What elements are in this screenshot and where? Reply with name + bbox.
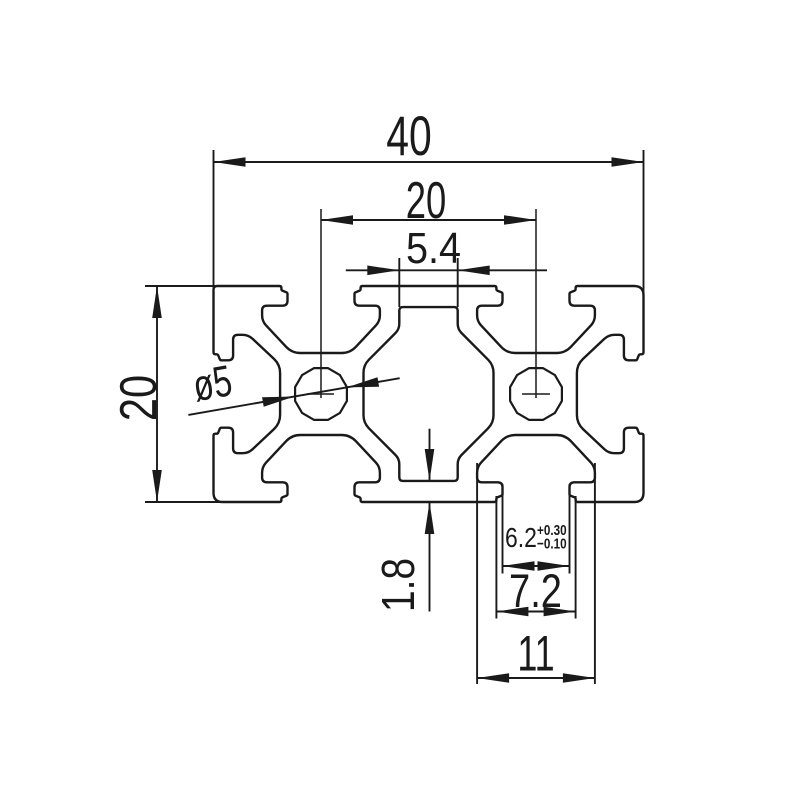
central cavity (364, 307, 494, 481)
dim 20 top centerline right (535, 209, 537, 398)
svg-text:7.2: 7.2 (509, 565, 562, 618)
svg-text:1.8: 1.8 (373, 558, 425, 612)
dim 20 left extension lines (145, 285, 228, 287)
hole centre tick right (522, 393, 550, 395)
dim 20 top arrows (321, 215, 353, 225)
dim 1.8 upper arrow (425, 449, 435, 481)
dim 11 extension lines (476, 463, 478, 684)
dim 5.4 extension lines (398, 258, 400, 307)
svg-text:40: 40 (386, 106, 431, 168)
dim 6.2 arrows (503, 561, 535, 571)
dim 1.8 upper line (429, 429, 431, 481)
dim 20 top centerline left (320, 209, 322, 398)
dim 7.2 arrows (496, 607, 528, 617)
svg-text:ø5: ø5 (189, 357, 235, 412)
svg-text:5.4: 5.4 (406, 223, 461, 272)
dim 11 arrows (477, 673, 509, 683)
dim 40 line (214, 161, 644, 163)
svg-text:20: 20 (406, 170, 446, 229)
dim 40 arrows (214, 157, 246, 167)
dia 5 leader line (188, 378, 399, 415)
dim 20 left arrows (152, 286, 162, 318)
hole centre tick left (307, 393, 334, 395)
dim 1.8 lower arrow (425, 502, 435, 534)
dia 5 arrows (262, 397, 294, 407)
dim 6.2 line (503, 565, 570, 567)
dim 20 top line (321, 219, 536, 221)
dim 5.4 arrows (367, 266, 399, 276)
profile outer outline (214, 286, 644, 502)
svg-text:−0.10: −0.10 (537, 535, 567, 552)
dim 6.2 extension lines (502, 484, 504, 574)
dim 7.2 extension lines (495, 496, 497, 619)
svg-text:11: 11 (517, 627, 554, 682)
dim 11 line (477, 677, 595, 679)
dim 5.4 line (346, 269, 547, 271)
dim 7.2 line (496, 611, 575, 613)
dim 40 extension lines (213, 150, 215, 293)
center hole left (295, 368, 347, 420)
svg-text:6.2: 6.2 (505, 523, 537, 554)
dim 1.8 lower line (429, 502, 431, 612)
svg-text:20: 20 (109, 375, 168, 421)
dim 20 left line (156, 286, 158, 502)
center hole right (510, 368, 562, 420)
